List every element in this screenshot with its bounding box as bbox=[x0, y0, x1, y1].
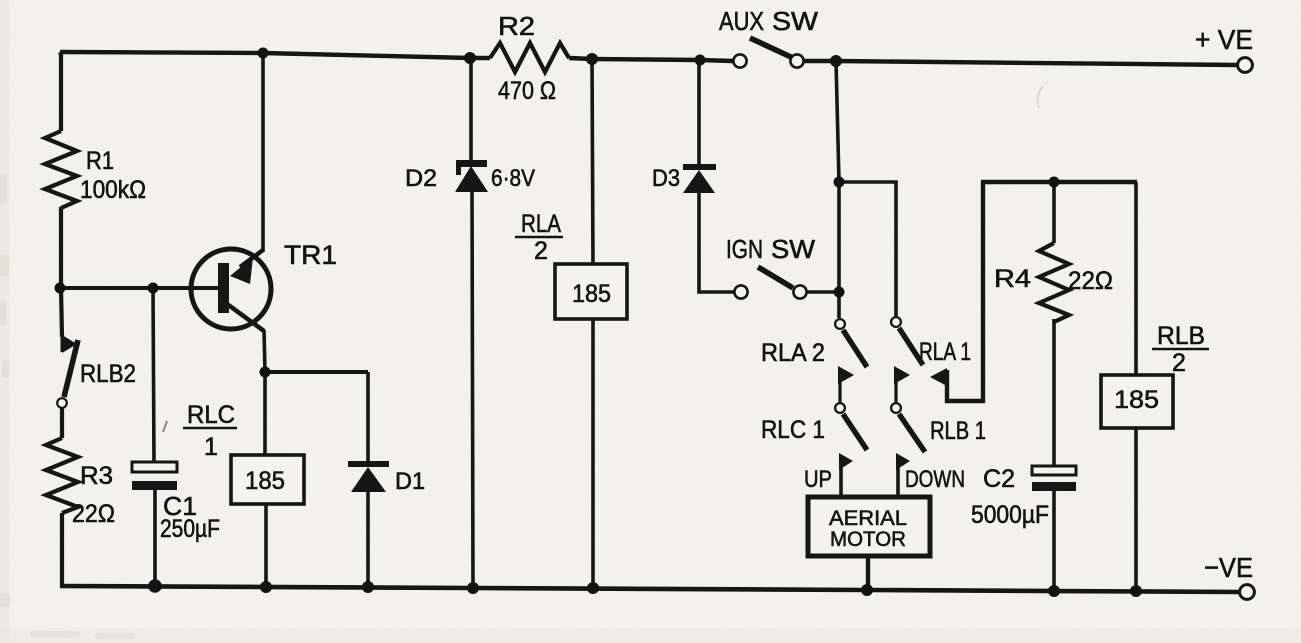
wire left rail bottom bbox=[60, 513, 64, 587]
svg-text:D2: D2 bbox=[405, 165, 437, 192]
diode D3 bbox=[683, 164, 716, 193]
faint scan hair mark bbox=[1038, 86, 1043, 108]
wire RLB coil top bbox=[1134, 182, 1138, 375]
resistor R3 bbox=[46, 438, 78, 513]
wire aux branch vertical bbox=[836, 61, 839, 318]
svg-text:185: 185 bbox=[245, 467, 285, 495]
svg-text:SW: SW bbox=[772, 6, 818, 36]
contact flag to RLC1 bbox=[838, 366, 854, 403]
svg-text:2: 2 bbox=[534, 237, 548, 265]
wire left rail top bbox=[60, 52, 61, 131]
relay contact RLB2 bbox=[57, 335, 78, 408]
relay coil RLC box 185 bbox=[231, 455, 304, 504]
svg-text:R4: R4 bbox=[994, 265, 1031, 293]
relay coil RLB box 185 bbox=[1101, 375, 1173, 428]
svg-text:MOTOR: MOTOR bbox=[830, 528, 906, 551]
wire top rail right segment bbox=[804, 61, 1238, 65]
wire emitter to D1 bbox=[265, 370, 368, 374]
svg-text:6·8V: 6·8V bbox=[491, 165, 535, 192]
wire motor to rail bbox=[866, 556, 870, 590]
capacitor C2 bbox=[1032, 466, 1076, 491]
svg-text:470 Ω: 470 Ω bbox=[498, 77, 556, 105]
wire D3 to IGN SW bbox=[699, 191, 734, 292]
resistor R2 bbox=[490, 43, 569, 72]
svg-text:RLA: RLA bbox=[521, 210, 561, 238]
wire IGN SW to node bbox=[807, 290, 839, 294]
wire TR1 emitter down bbox=[264, 330, 265, 455]
relay contact RLC1 bbox=[835, 403, 867, 450]
capacitor C1 bbox=[132, 462, 177, 490]
svg-text:IGN: IGN bbox=[726, 234, 763, 264]
box AERIAL MOTOR bbox=[808, 497, 930, 556]
svg-text:R2: R2 bbox=[498, 11, 535, 41]
resistor R1 bbox=[45, 131, 77, 208]
svg-text:SW: SW bbox=[771, 234, 815, 264]
label RLB over 2 bbox=[1152, 322, 1209, 377]
wire top rail mid segment bbox=[569, 58, 733, 61]
svg-text:22Ω: 22Ω bbox=[72, 500, 115, 528]
svg-text:AERIAL: AERIAL bbox=[829, 507, 907, 530]
terminal +VE bbox=[1238, 58, 1253, 73]
wire RLC coil to rail bbox=[264, 504, 268, 588]
wire D2 bottom bbox=[472, 190, 473, 588]
svg-text:UP: UP bbox=[804, 466, 832, 493]
wire base bbox=[60, 286, 219, 290]
svg-text:RLA 1: RLA 1 bbox=[919, 338, 971, 366]
switch IGN SW bbox=[734, 267, 806, 299]
svg-text:C2: C2 bbox=[983, 465, 1015, 493]
transistor TR1 bbox=[191, 249, 271, 331]
label RLA over 2 bbox=[515, 210, 563, 265]
wire left rail mid bbox=[61, 207, 62, 337]
wire top rail left segment bbox=[60, 52, 490, 58]
relay contact RLA2 bbox=[835, 319, 867, 367]
resistor R4 bbox=[1039, 243, 1069, 322]
svg-text:185: 185 bbox=[572, 280, 611, 308]
svg-text:RLB2: RLB2 bbox=[80, 360, 136, 388]
relay contact RLA1 bbox=[891, 317, 923, 365]
svg-text:250µF: 250µF bbox=[160, 515, 220, 543]
svg-text:2: 2 bbox=[1172, 349, 1186, 377]
wire RLA coil top bbox=[592, 59, 593, 264]
terminal -VE bbox=[1240, 585, 1255, 600]
label AUX SW bbox=[719, 6, 818, 36]
svg-text:RLC: RLC bbox=[187, 401, 235, 429]
relay coil RLA box 185 bbox=[555, 264, 627, 319]
svg-text:185: 185 bbox=[1114, 386, 1159, 414]
relay contact RLB1 bbox=[891, 403, 925, 452]
wire C2 bottom bbox=[1052, 490, 1056, 592]
wire D3 top bbox=[697, 60, 701, 164]
label RLC over 1 bbox=[183, 401, 237, 461]
scan edge shading bbox=[0, 0, 10, 643]
diode D1 bbox=[348, 461, 389, 492]
wire TR1 collector bbox=[261, 53, 265, 252]
contact fixed RLA1 left-arrow bbox=[930, 182, 1137, 401]
wire bottom rail bbox=[60, 586, 1240, 592]
svg-text:D3: D3 bbox=[652, 165, 680, 192]
svg-text:−VE: −VE bbox=[1204, 552, 1253, 583]
svg-text:5000µF: 5000µF bbox=[971, 501, 1049, 529]
wire D1 top bbox=[366, 372, 370, 462]
svg-text:100kΩ: 100kΩ bbox=[80, 176, 146, 204]
svg-text:RLA 2: RLA 2 bbox=[761, 339, 825, 367]
svg-text:RLC 1: RLC 1 bbox=[761, 416, 825, 444]
switch AUX SW bbox=[733, 38, 803, 68]
svg-text:D1: D1 bbox=[395, 468, 425, 495]
faint page bleed ghosts left edge bbox=[0, 175, 135, 639]
wire D2 top bbox=[469, 58, 473, 161]
svg-text:22Ω: 22Ω bbox=[1068, 267, 1113, 295]
svg-text:RLB 1: RLB 1 bbox=[930, 417, 986, 445]
svg-text:AUX: AUX bbox=[719, 6, 764, 36]
zener diode D2 bbox=[455, 160, 488, 192]
wire RLA coil bottom bbox=[591, 319, 595, 588]
svg-text:+ VE: + VE bbox=[1195, 24, 1253, 55]
contact flag DOWN bbox=[896, 453, 910, 498]
svg-text:DOWN: DOWN bbox=[905, 466, 965, 493]
svg-text:1: 1 bbox=[204, 433, 218, 461]
wire D1 bottom bbox=[366, 490, 370, 588]
wire C1 top bbox=[153, 288, 154, 463]
label IGN SW bbox=[726, 234, 815, 264]
contact flag UP bbox=[839, 453, 853, 498]
wire R4 to C2 bbox=[1052, 319, 1056, 466]
contact flag to RLB1 bbox=[894, 366, 910, 403]
svg-text:RLB: RLB bbox=[1157, 322, 1205, 350]
wire RLB coil bottom bbox=[1134, 428, 1138, 592]
wire RLB2 to R3 bbox=[60, 408, 64, 438]
svg-text:R3: R3 bbox=[80, 462, 113, 490]
paper speck bbox=[163, 421, 167, 432]
wire R4 top bbox=[1052, 182, 1056, 243]
wire branch to RLA1 bbox=[839, 182, 896, 317]
svg-text:R1: R1 bbox=[86, 147, 114, 175]
svg-text:TR1: TR1 bbox=[284, 240, 337, 270]
wire C1 bottom bbox=[153, 490, 157, 587]
